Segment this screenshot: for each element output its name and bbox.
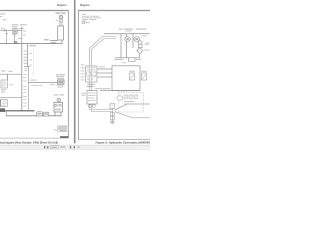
solenoid K1 box (13, 29, 17, 34)
switch contact circle (57, 98, 61, 102)
pump left labels (82, 92, 87, 95)
page number field (50, 146, 58, 149)
status bar bottom shade (0, 149, 150, 150)
pump P1 (125, 37, 131, 42)
relay K2 box (58, 80, 65, 84)
main pressure line (104, 33, 150, 35)
tank symbol (129, 58, 136, 62)
wire label above (30, 79, 37, 82)
module M1 box (1, 80, 7, 88)
manifold dashed box (119, 92, 144, 112)
drop to module (7, 74, 9, 80)
valve V2 (142, 73, 147, 80)
page count text (60, 146, 66, 147)
module labels below (1, 89, 6, 90)
legend symbol (82, 22, 85, 24)
relay labels below (57, 85, 64, 86)
right page frame top border (78, 9, 150, 12)
gauge ellipse (117, 96, 123, 100)
title block side label (54, 129, 58, 132)
long vertical wire (21, 44, 23, 111)
label right of solenoid (20, 24, 27, 25)
svg-text:Figure 2: Hydraulic Schematic: Figure 2: Hydraulic Schematic (M00000 (96, 140, 151, 144)
wire label near relay (50, 83, 55, 86)
drop wire 3 (132, 34, 134, 48)
ground bus dark (0, 110, 35, 112)
valve to tank lead (139, 54, 141, 58)
nav next button (70, 146, 71, 148)
battery stud circle (59, 15, 62, 18)
cylinder block outline (112, 66, 140, 91)
wire label (5, 32, 8, 35)
relay labels (56, 74, 65, 79)
label above solenoid line2 (12, 26, 17, 27)
manifold labels (124, 101, 134, 102)
drop wire 1 (120, 34, 122, 58)
wire drop B (14, 34, 16, 44)
right page frame left border (77, 11, 79, 140)
wire label (44, 39, 49, 40)
label above solenoid (12, 24, 19, 25)
check valve diamond (137, 48, 143, 54)
nav first-page button (44, 146, 45, 148)
pump label (142, 35, 148, 36)
legend notes block (82, 14, 101, 22)
right page caption (96, 140, 151, 144)
fuse leads down (60, 22, 62, 26)
pump bottom fittings (89, 105, 92, 107)
pump assembly box (87, 91, 97, 105)
wire code labels column (24, 51, 32, 66)
return hose horizontal run (90, 110, 113, 112)
status bar background (0, 145, 150, 150)
right page frame bottom border (78, 139, 150, 141)
port label P1 (99, 65, 105, 68)
label below bus (29, 45, 36, 46)
vertical wire lower (27, 67, 29, 111)
stud plug (60, 19, 63, 22)
left page header word (57, 3, 67, 7)
short vertical wire (26, 44, 28, 67)
connector X1 (37, 112, 43, 116)
tank labels (115, 58, 124, 61)
svg-text:ing Diagram (Rear October, 200: ing Diagram (Rear October, 2005) (Sheet … (0, 141, 58, 145)
right page header word (80, 3, 90, 7)
dashed vertical wire (33, 44, 35, 76)
filter stack (110, 104, 115, 109)
wire drop A (6, 31, 8, 43)
connector blob on bus (14, 41, 17, 44)
title block text rows (58, 126, 69, 132)
wire to keypad (0, 97, 22, 99)
page background (0, 0, 150, 150)
drop wire 2 (126, 34, 128, 58)
fuse F1 box (58, 26, 64, 40)
wire label (23, 34, 26, 37)
lower bus wire (6, 115, 62, 117)
control valve cluster (86, 66, 98, 82)
connector plug on wire (5, 29, 6, 31)
branch wire (0, 73, 22, 75)
link line (95, 88, 110, 90)
block bottom line (100, 90, 140, 92)
nav extra button (78, 146, 80, 148)
branch labels (1, 70, 6, 71)
battery stud label (55, 13, 60, 14)
svg-text:Diagrams: Diagrams (57, 3, 67, 7)
left page frame top border (0, 9, 69, 12)
title block dark bar (60, 136, 68, 138)
accumulator (138, 41, 142, 45)
wire label (1, 27, 4, 30)
gutter line between pages (74, 0, 76, 144)
block port lines (98, 69, 113, 77)
left page caption (0, 141, 58, 145)
wire drop C (21, 27, 23, 44)
cluster lower smudges (87, 84, 95, 85)
connector X2 (43, 112, 49, 116)
wire label (18, 37, 22, 40)
hose fork lower (115, 112, 150, 118)
cluster left labels (81, 65, 85, 81)
wire fuse to bus (61, 40, 63, 44)
left page frame bottom border (0, 137, 69, 139)
nav prev button (47, 146, 48, 148)
main bus wire (0, 43, 62, 45)
manifold valves (124, 95, 127, 98)
nav last button (74, 146, 75, 148)
tank line (115, 57, 140, 59)
svg-text:Diagrams: Diagrams (80, 3, 90, 7)
ground blob (0, 108, 5, 112)
valve V1 (130, 73, 135, 80)
wire label (51, 42, 56, 43)
stud tick label (56, 19, 58, 22)
wire to relay (28, 82, 57, 84)
line labels (119, 29, 123, 30)
junction labels (25, 67, 28, 70)
left page frame right border (67, 11, 69, 139)
wire labels column 2 (23, 74, 27, 107)
switch leads (55, 112, 61, 116)
wire label below (31, 84, 42, 87)
keypad box (1, 100, 8, 107)
wire from fuse left (50, 39, 58, 41)
note text block top-left (0, 13, 6, 20)
hose fork upper (115, 104, 150, 110)
wire solenoid to node (17, 29, 22, 31)
wire to solenoid left (0, 29, 13, 31)
wire label (23, 30, 26, 33)
suction hose (double line) (90, 36, 116, 60)
switch labels (54, 94, 59, 95)
junction tick (24, 66, 30, 68)
pump P2 (134, 37, 140, 42)
suction hose vertical run (90, 48, 92, 111)
switch S1 box (54, 103, 62, 113)
